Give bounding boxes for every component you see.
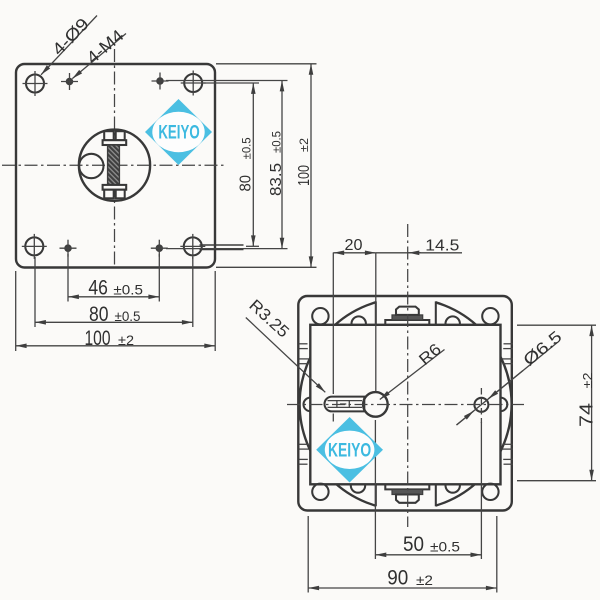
corner hole arch bottom-right — [482, 484, 498, 500]
dim 20 extension line left — [332, 253, 334, 395]
dim 80 vertical line — [252, 83, 254, 246]
dim 20 extension line right — [375, 253, 377, 392]
D-notch left — [304, 398, 311, 412]
dim 80 extension lines — [34, 257, 36, 327]
hole Ø9 bottom-left — [22, 234, 47, 259]
big body circle (masked arcs) — [300, 298, 512, 510]
label Ø6.5 leader — [457, 343, 558, 425]
svg-text:14.5: 14.5 — [425, 237, 459, 254]
plate outline — [16, 64, 215, 268]
KEIYO logo left — [145, 99, 212, 165]
svg-text:83.5: 83.5 — [268, 163, 285, 196]
bolt bottom: nut — [396, 495, 419, 503]
hole M4 top-right — [152, 73, 169, 90]
hole Ø6.5 — [474, 388, 488, 423]
terminal lines bottom-right — [200, 244, 244, 246]
dim 90 line — [308, 587, 497, 589]
bobbin stem (hatched) — [108, 145, 120, 185]
dim 14.5 line — [376, 252, 462, 254]
vertical centerline — [114, 49, 116, 267]
svg-text:100: 100 — [85, 327, 111, 350]
dim 90 extension lines — [307, 516, 309, 593]
dim 83.5 vertical line — [281, 81, 283, 249]
hole M4 bottom-right — [151, 240, 168, 257]
label R3.25 leader — [246, 318, 325, 393]
bobbin top blocks — [104, 131, 114, 140]
svg-text:50: 50 — [403, 533, 424, 556]
svg-text:80: 80 — [238, 175, 255, 192]
dim 100 vertical line — [310, 64, 312, 267]
label 4-Ø9 leader — [41, 16, 97, 75]
dim 80 line — [35, 321, 193, 323]
slot R3.25 — [325, 397, 365, 412]
svg-text:±2: ±2 — [118, 332, 134, 348]
big circle — [79, 130, 150, 201]
bolt top: nut — [396, 307, 419, 315]
D-notch right — [501, 398, 508, 412]
boss edge top-right — [435, 301, 437, 324]
hole Ø9 top-right — [181, 71, 206, 96]
svg-text:±0.5: ±0.5 — [430, 539, 460, 555]
svg-text:±0.5: ±0.5 — [115, 308, 141, 324]
hole M4 bottom-left — [60, 240, 77, 257]
svg-text:74: 74 — [576, 403, 596, 427]
dim 100 line — [16, 345, 216, 347]
svg-text:100: 100 — [296, 165, 313, 186]
bobbin bottom blocks — [104, 190, 114, 199]
svg-text:±0.5: ±0.5 — [113, 282, 143, 298]
svg-text:20: 20 — [345, 237, 363, 254]
bolt top: washer — [392, 315, 423, 320]
svg-text:±0.5: ±0.5 — [271, 131, 283, 153]
horizontal centerline — [2, 164, 224, 166]
KEIYO logo right — [316, 417, 383, 483]
hole M4 top-left — [61, 73, 78, 90]
boss edge bottom-right — [435, 484, 437, 506]
dim 74 line — [591, 325, 593, 481]
label 4-M4 leader — [72, 34, 126, 79]
svg-text:±2: ±2 — [416, 572, 433, 588]
hole Ø9 top-left — [23, 71, 48, 96]
svg-text:90: 90 — [387, 567, 408, 590]
svg-text:KEIYO: KEIYO — [158, 122, 200, 143]
corner hole arch top-left — [312, 308, 328, 324]
dim 50 line — [375, 554, 481, 556]
clip ticks right edge — [502, 344, 513, 464]
svg-text:KEIYO: KEIYO — [328, 439, 371, 461]
dim 100 extension lines — [15, 271, 17, 351]
vertical centerline right view — [407, 224, 409, 527]
body rectangle — [310, 325, 500, 485]
dim 20 line — [333, 252, 376, 254]
corner hole arch top-right — [482, 308, 498, 324]
svg-text:80: 80 — [89, 303, 109, 326]
bobbin bottom flange — [103, 185, 127, 190]
small arch bottom-right — [446, 484, 460, 492]
label R6 leader — [380, 350, 445, 400]
small arch top-right — [446, 316, 460, 324]
outer plate outline — [298, 296, 512, 511]
right-side extension lines of left view — [204, 82, 260, 84]
boss edge bottom-left — [375, 484, 377, 506]
svg-text:±0.5: ±0.5 — [241, 137, 253, 159]
corner hole arch bottom-left — [312, 484, 328, 500]
bobbin top flange — [103, 140, 127, 145]
boss edge top-left — [375, 301, 377, 324]
svg-text:±2: ±2 — [581, 372, 595, 388]
horizontal centerline right view — [287, 404, 524, 406]
dim 50 extension lines — [374, 420, 376, 559]
clip ticks left edge — [299, 344, 309, 464]
svg-text:±2: ±2 — [299, 138, 311, 152]
small circle — [79, 154, 103, 178]
bolt top: base strip — [385, 320, 429, 325]
dim 46 line — [68, 296, 159, 298]
bolt bottom: base strip — [385, 484, 429, 489]
small arch bottom-left — [351, 484, 365, 492]
small arch top-left — [352, 316, 366, 324]
svg-text:46: 46 — [88, 276, 108, 299]
hole Ø9 bottom-right — [180, 234, 205, 259]
dim 46 extension lines — [67, 254, 69, 302]
bolt bottom: washer — [392, 489, 423, 494]
shaft circle R6 — [363, 392, 388, 417]
dim 74 extension lines — [517, 324, 596, 326]
